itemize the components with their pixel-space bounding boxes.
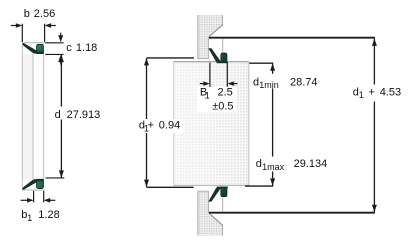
mounted seal top: base band [217, 62, 228, 64]
dim d1+4.53: top arrow [372, 39, 377, 46]
label d1 + 4.53 [350, 85, 402, 102]
dim d: bottom tick [46, 177, 65, 179]
top seal top-face line [24, 42, 45, 44]
svg-text:+: + [148, 120, 154, 132]
svg-text:4.53: 4.53 [380, 86, 401, 98]
shaft block left edge [173, 61, 175, 185]
dim c: top arrow [60, 33, 62, 36]
mounted seal top: body [221, 53, 227, 63]
svg-text:0.94: 0.94 [159, 120, 180, 132]
label d1min 28.74 [252, 74, 318, 89]
dim d1+0.94: top arrow [144, 58, 149, 65]
extension line (grey, body right) [43, 54, 45, 179]
svg-text:1.28: 1.28 [38, 209, 59, 221]
svg-text:1max: 1max [262, 162, 285, 172]
top seal lip [22, 42, 39, 53]
mounted seal bottom: base band [217, 187, 228, 189]
groove side line bottom [222, 198, 224, 212]
bottom seal bottom-face line [24, 189, 45, 191]
dim d1+0.94: bottom reference line [147, 186, 194, 188]
housing bar top strip right edge [208, 37, 210, 59]
dim d: bottom arrow [59, 170, 64, 177]
housing bar bottom left edge [197, 191, 199, 236]
svg-text:d: d [55, 109, 61, 121]
housing bar top bottom edge [198, 58, 209, 60]
shaft block top edge [173, 61, 249, 63]
groove bottom line top (d1+4.53 upper reference) [209, 37, 375, 39]
mounted seal bottom: body [221, 187, 227, 197]
label d 27.913 [52, 107, 100, 120]
dim B1: left extension line [209, 63, 211, 87]
dim b1: right arrow [44, 198, 51, 203]
svg-text:27.913: 27.913 [67, 109, 101, 121]
dim c: top tick [45, 42, 63, 44]
svg-text:±0.5: ±0.5 [212, 101, 233, 113]
extension line (grey, lip outer edge) [21, 46, 23, 189]
dim d1+4.53: bottom arrow [372, 205, 377, 212]
dim d1+0.94: bottom arrow [144, 180, 149, 187]
dim b: left leader arrow [11, 25, 17, 27]
housing bar top chamfer [209, 25, 223, 37]
dim B1: label background [197, 87, 237, 112]
svg-text:d: d [253, 76, 259, 88]
housing bar bottom chamfer [209, 213, 223, 225]
extension line (grey, body left) [32, 54, 34, 179]
mounted seal bottom: lip [208, 188, 221, 202]
dim d1min/d1max: bottom reference line [245, 185, 273, 187]
dim c: bottom arrow [58, 55, 63, 62]
svg-text:+: + [368, 86, 374, 98]
svg-text:2.56: 2.56 [34, 8, 55, 20]
svg-text:1: 1 [359, 90, 364, 100]
housing bar top right edge [222, 15, 224, 25]
dim d1min/d1max: top arrow [270, 63, 275, 70]
top seal body [37, 44, 44, 53]
svg-text:d: d [256, 158, 262, 170]
light band between extension lines [23, 54, 33, 179]
housing bar top left edge [197, 15, 199, 59]
shaft block right edge [248, 61, 250, 185]
dim d1min/d1max: bottom arrow [270, 178, 275, 185]
dim d1+4.53: vertical line [373, 39, 375, 212]
dim B1: right arrow [228, 81, 234, 86]
dim B1: left arrow [200, 83, 205, 85]
svg-text:1: 1 [27, 213, 32, 223]
label d1max 29.134 [255, 157, 329, 172]
svg-text:1min: 1min [259, 80, 279, 90]
svg-text:2.5: 2.5 [218, 87, 233, 99]
dim b1: left extension line [33, 191, 35, 203]
svg-text:b: b [24, 8, 30, 20]
mounted seal top: lip [208, 48, 221, 62]
housing bar bottom [198, 191, 223, 236]
bottom seal lip [22, 180, 39, 191]
dim c: bottom tick [45, 53, 63, 55]
label d1+ 0.94 [137, 119, 184, 133]
housing bar bottom strip right edge [208, 191, 210, 213]
dim d1min/d1max: top reference line [249, 62, 273, 64]
housing bar bottom top edge [198, 190, 209, 192]
dim b1: left arrow [21, 199, 28, 201]
svg-text:c: c [66, 42, 72, 54]
dim d: top arrow [59, 55, 64, 62]
dim d1+0.94: vertical line [146, 58, 148, 187]
svg-text:1.18: 1.18 [76, 42, 97, 54]
housing bar top [198, 15, 223, 59]
dim b: left extension line [21, 24, 23, 42]
svg-text:28.74: 28.74 [290, 76, 318, 88]
housing bar bottom right edge [222, 225, 224, 235]
svg-text:29.134: 29.134 [294, 158, 328, 170]
shaft block bottom edge [173, 184, 249, 186]
svg-text:1: 1 [205, 90, 210, 100]
bottom seal body [37, 179, 44, 188]
dim B1: right extension line [226, 63, 228, 87]
dim b: right leader arrow [45, 23, 52, 28]
dim b1: right extension line [43, 191, 45, 203]
dim b: right extension line [44, 24, 46, 42]
groove side line top [222, 39, 224, 53]
top seal base band [34, 52, 44, 54]
groove bottom line bottom (d1+4.53 lower reference) [209, 212, 375, 214]
dim d1+0.94: top reference line [147, 57, 194, 59]
dim d1min/d1max: vertical line [272, 63, 274, 185]
dim d: vertical dimension line [60, 55, 62, 178]
bottom seal base band [34, 179, 44, 181]
shaft block [173, 61, 249, 185]
